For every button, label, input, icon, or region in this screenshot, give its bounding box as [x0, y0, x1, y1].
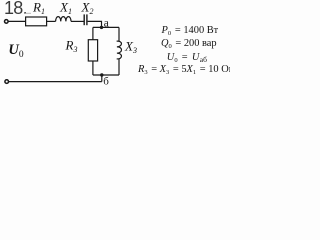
- wire R3 to bottom rail: [92, 61, 94, 75]
- svg-text:R3 = X3 = 5X1 = 10 Ом: R3 = X3 = 5X1 = 10 Ом: [137, 64, 230, 76]
- wire rail to X3: [118, 27, 120, 41]
- wire rail to R3: [92, 27, 94, 39]
- svg-text:U0: U0: [8, 42, 23, 60]
- svg-text:X1: X1: [59, 0, 72, 16]
- given value Q0: [161, 38, 217, 50]
- wire X2 to corner and down to node a: [88, 21, 102, 27]
- wire X1 to X2: [71, 20, 84, 22]
- svg-text:б: б: [103, 75, 109, 87]
- svg-text:18.: 18.: [4, 0, 27, 18]
- svg-text:U0 = Uаб: U0 = Uаб: [167, 52, 207, 64]
- wire X3 to bottom rail: [118, 59, 120, 76]
- label R1: [32, 0, 45, 16]
- wire R1 to X1: [47, 20, 56, 22]
- problem number 18: [4, 0, 27, 18]
- resistor R1: [26, 17, 47, 26]
- svg-text:P0 = 1400 Вт: P0 = 1400 Вт: [161, 25, 219, 37]
- label X1: [59, 0, 72, 16]
- svg-text:R1: R1: [32, 0, 45, 16]
- svg-text:Q0 = 200 вар: Q0 = 200 вар: [161, 38, 217, 50]
- input terminal top: [5, 20, 9, 24]
- given value R3 = X3 = 5X1 = 10 Om: [137, 64, 236, 76]
- input terminal bottom: [5, 80, 9, 84]
- given value P0: [161, 25, 219, 37]
- top rail of parallel section: [93, 26, 119, 28]
- svg-text:R3: R3: [65, 38, 78, 55]
- given value U0 = Uab: [167, 52, 207, 64]
- bottom rail of parallel section: [93, 74, 119, 76]
- svg-text:X2: X2: [81, 0, 94, 16]
- resistor R3: [88, 40, 97, 61]
- label X3: [124, 39, 137, 56]
- inductor X3: [117, 41, 122, 59]
- wire top-left: [8, 20, 25, 22]
- label b: [103, 75, 109, 87]
- label a: [104, 17, 109, 29]
- label X2: [81, 0, 94, 16]
- label R3: [65, 38, 78, 55]
- svg-text:X3: X3: [124, 39, 137, 56]
- node b: [100, 73, 103, 76]
- capacitor X2: [84, 14, 87, 25]
- bottom wire: [9, 81, 102, 83]
- node a: [100, 26, 103, 29]
- inductor X1: [56, 17, 71, 22]
- label U0 source voltage: [8, 42, 23, 60]
- blank underscore mark: [25, 12, 32, 14]
- wire node b down to bottom wire: [101, 75, 103, 82]
